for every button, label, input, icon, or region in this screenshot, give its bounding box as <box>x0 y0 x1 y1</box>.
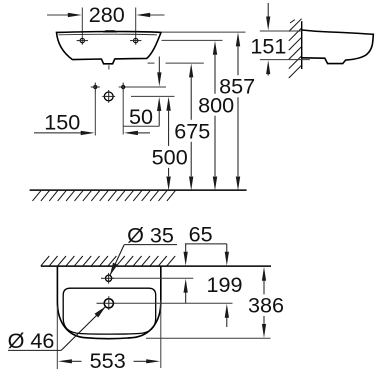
dim 386 top arrow <box>262 267 266 281</box>
extension line left hole <box>81 8 83 45</box>
basin front reference line <box>146 337 271 339</box>
basin overflow bump on top edge <box>103 30 118 32</box>
dim 675 vertical line <box>189 63 193 77</box>
svg-text:553: 553 <box>90 348 126 373</box>
dim 50 bracket <box>123 125 159 127</box>
drain centre line <box>115 302 233 304</box>
drain hole (plan) <box>104 299 113 308</box>
svg-text:Ø 35: Ø 35 <box>127 222 174 247</box>
right faucet hole <box>134 38 138 42</box>
Ø35 leader <box>124 244 177 246</box>
dim 500 vertical line <box>166 97 170 111</box>
svg-text:386: 386 <box>248 293 284 318</box>
basin plan outer outline <box>57 267 160 339</box>
dim 553 line <box>58 359 72 363</box>
dim 553 right extension <box>160 300 162 368</box>
svg-text:50: 50 <box>129 104 153 129</box>
plan wall hatching <box>41 256 49 266</box>
dim 553 left extension <box>56 306 58 369</box>
dim 150 line right <box>124 131 138 135</box>
dim 199 top arrow <box>226 244 228 253</box>
svg-text:500: 500 <box>152 144 188 169</box>
dim 65 left arrow <box>185 244 187 253</box>
svg-text:65: 65 <box>189 221 213 246</box>
basin front inner rim line <box>59 33 158 36</box>
reference line 675 level <box>148 62 155 64</box>
reference line 857 level <box>162 31 246 33</box>
dim 857 vertical line <box>236 32 240 46</box>
tap hole centre line <box>112 277 194 279</box>
floor line <box>30 189 247 191</box>
dim 65 tap arrow <box>184 279 188 293</box>
drain circle (elevation) <box>104 92 113 101</box>
dim 151 bottom reference line <box>260 59 310 61</box>
left cross extension line <box>94 91 96 136</box>
dim 50 lower arrow <box>157 97 161 111</box>
svg-text:675: 675 <box>174 118 210 143</box>
extension line right hole <box>135 8 137 45</box>
dim 199 bottom arrow <box>225 304 229 318</box>
dimension 280 line+arrows <box>47 14 70 16</box>
dim 386 bottom arrow <box>263 316 265 326</box>
basin side profile <box>302 30 373 64</box>
basin front outline <box>57 32 162 64</box>
left faucet hole <box>80 38 84 42</box>
basin plan inner rim <box>63 288 156 334</box>
dim 151 top arrow <box>267 3 269 20</box>
dim 50 upper arrow <box>158 57 160 76</box>
right supply cross <box>122 85 125 88</box>
reference line 500 level <box>131 95 175 97</box>
tap hole (plan) <box>106 275 112 281</box>
svg-text:Ø 46: Ø 46 <box>8 328 55 353</box>
wall line (side view) <box>301 21 303 69</box>
svg-text:280: 280 <box>89 2 125 27</box>
floor hatching <box>33 191 41 201</box>
hole centre line <box>119 86 166 88</box>
dim 800 vertical line <box>213 41 217 55</box>
Ø46 leader <box>8 349 61 351</box>
right cross extension line <box>122 91 124 135</box>
dim 150 line left <box>34 132 83 134</box>
svg-text:199: 199 <box>206 272 242 297</box>
svg-text:150: 150 <box>44 110 80 135</box>
basin drain tab tick <box>108 65 110 69</box>
left supply cross <box>94 85 97 88</box>
dim 151 bottom arrow <box>267 71 269 76</box>
dim 151 top reference line <box>260 30 302 32</box>
svg-text:857: 857 <box>219 74 255 99</box>
dim 65 bracket <box>185 243 227 245</box>
plan wall line <box>41 265 271 267</box>
svg-text:151: 151 <box>250 34 286 59</box>
wall hatching (side view) <box>289 19 302 32</box>
reference line 800 level <box>162 39 223 41</box>
